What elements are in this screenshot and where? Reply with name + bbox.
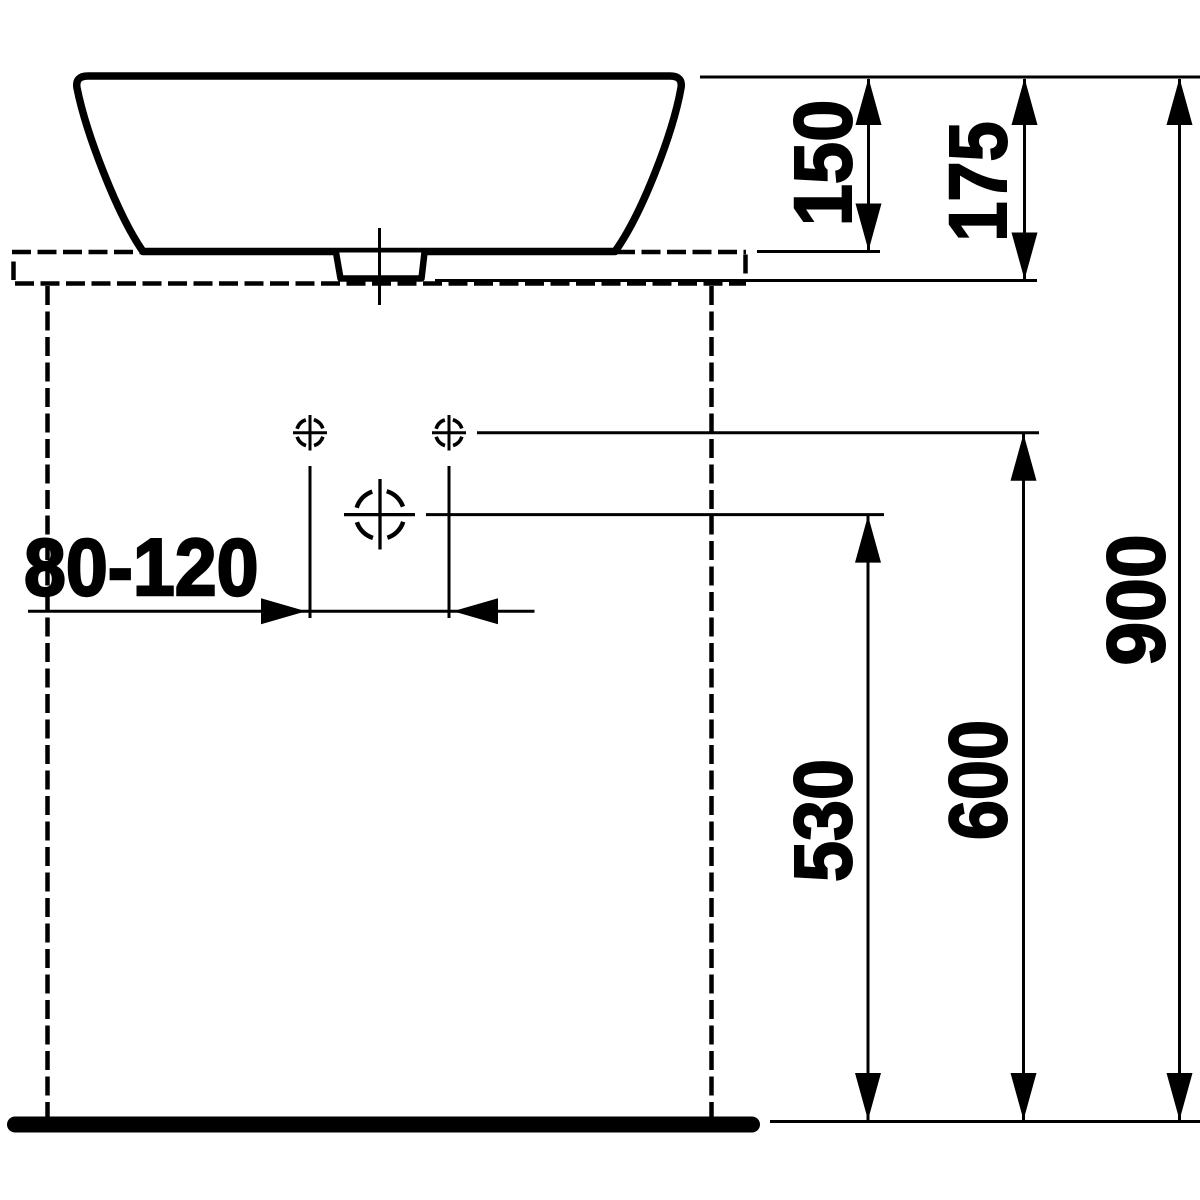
svg-text:900: 900 [1091, 534, 1183, 665]
svg-text:600: 600 [933, 720, 1024, 840]
svg-text:175: 175 [933, 121, 1024, 241]
svg-text:530: 530 [776, 759, 869, 882]
svg-text:150: 150 [777, 100, 868, 227]
svg-text:80-120: 80-120 [24, 521, 259, 612]
